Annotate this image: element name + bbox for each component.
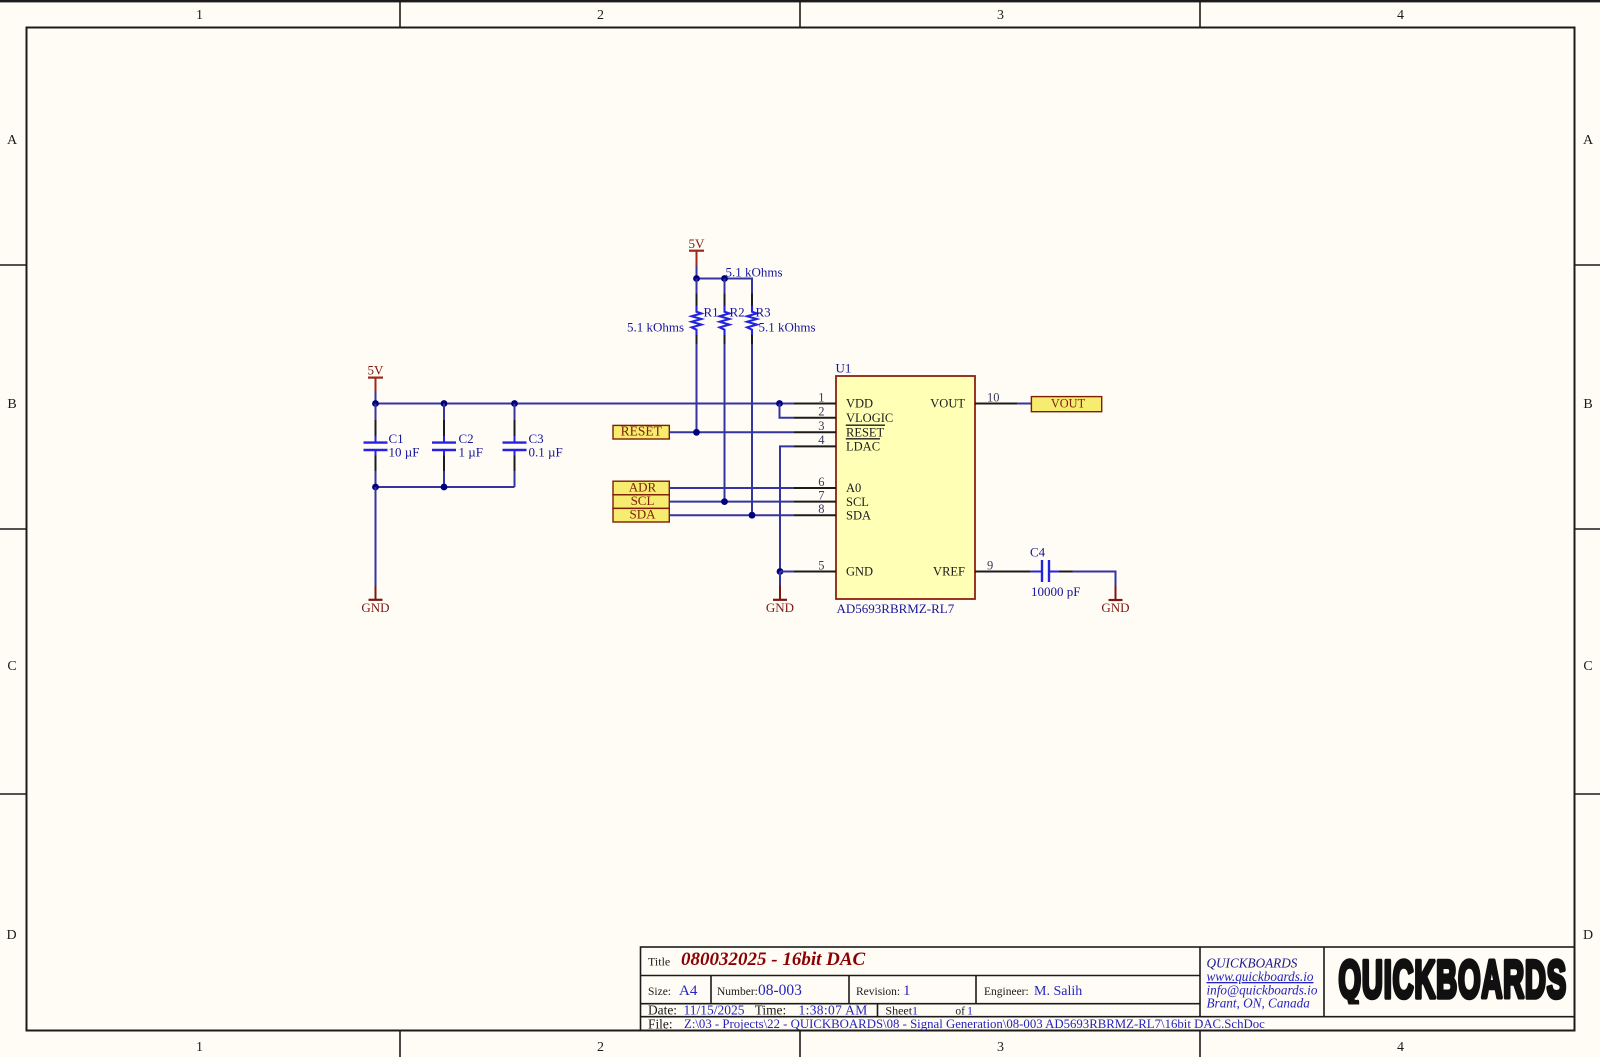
TITLEBLOCK [641,947,1575,1031]
svg-text:B: B [1583,397,1592,412]
wire ADR to pin 6 [669,487,794,489]
svg-text:Z:\03 - Projects\22 - QUICKBOA: Z:\03 - Projects\22 - QUICKBOARDS\08 - S… [684,1017,1265,1031]
svg-text:080032025 - 16bit DAC: 080032025 - 16bit DAC [681,949,866,970]
wire VLOGIC branch to pin 2 [780,404,795,418]
svg-text:10 µF: 10 µF [389,444,420,459]
wire 5V to resistor rail [696,266,698,279]
junction R1 top [693,275,700,282]
pin 10 VOUT [975,403,1017,405]
svg-text:0.1 µF: 0.1 µF [529,444,563,459]
svg-text:Sheet: Sheet [885,1004,912,1018]
wire resistor top rail [696,279,753,295]
pin 7 SCL [794,501,836,503]
capacitor C3 [503,404,527,488]
junction VLOGIC branch [776,400,783,407]
junction C1 bottom [372,484,379,491]
svg-text:RESET: RESET [846,426,885,440]
pin 8 SDA [794,514,836,516]
svg-text:File:: File: [648,1016,673,1031]
junction R2 top [721,275,728,282]
resistor R2 [720,279,730,502]
op-amp U1 AD5693RBRMZ-RL7 [794,361,1031,617]
svg-text:VLOGIC: VLOGIC [846,411,893,425]
wire junction to ground [779,572,781,586]
svg-text:AD5693RBRMZ-RL7: AD5693RBRMZ-RL7 [837,601,955,616]
svg-text:SDA: SDA [629,507,656,522]
wire capacitor bottom rail [375,486,515,488]
svg-text:2: 2 [597,8,604,23]
svg-text:A: A [7,133,18,148]
svg-text:Brant, ON, Canada: Brant, ON, Canada [1207,996,1311,1011]
svg-text:8: 8 [818,502,824,516]
svg-text:6: 6 [818,475,824,489]
svg-text:GND: GND [361,600,389,615]
svg-text:9: 9 [987,558,993,572]
resistor R3 [747,294,757,516]
svg-text:10000 pF: 10000 pF [1031,584,1080,599]
port RESET [613,423,669,439]
svg-text:4: 4 [1397,8,1404,23]
svg-text:SCL: SCL [846,495,869,509]
CIRCUIT [361,236,1129,616]
svg-text:R1: R1 [704,305,719,320]
port ADR [613,479,669,495]
svg-text:1: 1 [967,1004,973,1018]
svg-text:08-003: 08-003 [758,982,802,999]
svg-text:3: 3 [818,419,824,433]
svg-text:R3: R3 [756,305,771,320]
capacitor C4 [1031,560,1073,582]
svg-text:SDA: SDA [846,508,871,522]
svg-text:Engineer:: Engineer: [984,986,1029,998]
pin 3 RESET (active low) [794,431,836,433]
svg-text:M. Salih: M. Salih [1034,984,1082,999]
svg-text:7: 7 [818,488,824,502]
wire 5V symbol to VDD rail [375,391,377,404]
wire SDA to pin 8 [669,514,794,516]
junction R1 bottom / RESET [693,429,700,436]
svg-text:2: 2 [597,1040,604,1055]
port VOUT [1031,397,1101,412]
svg-text:2: 2 [818,405,824,419]
svg-text:1: 1 [903,983,911,999]
ground GND symbol (left) [361,586,389,615]
wire VDD rail (5V to pin 1) [375,403,795,405]
pin 4 LDAC (active low) [794,445,836,447]
wire pin 10 to VOUT port [1017,403,1031,405]
svg-text:3: 3 [997,8,1004,23]
svg-text:C: C [7,659,16,674]
svg-text:1: 1 [196,8,203,23]
junction C2 bottom [441,484,448,491]
svg-text:GND: GND [766,600,794,615]
wire RESET to pin 3 [669,431,794,433]
svg-text:VDD: VDD [846,397,873,411]
junction C1 top [372,400,379,407]
svg-text:10: 10 [987,390,1000,404]
wire SCL to pin 7 [669,501,794,503]
ground GND symbol (right, below C4) [1101,586,1129,615]
pin 5 GND [794,571,836,573]
svg-text:QUICKBOARDS: QUICKBOARDS [1339,950,1567,1008]
svg-text:Time:: Time: [755,1003,787,1018]
svg-text:5V: 5V [368,363,385,378]
svg-text:D: D [6,928,16,943]
pin 2 VLOGIC [794,417,836,419]
capacitor C1 [364,404,388,488]
junction GND pin 5 [777,568,784,575]
wire C4 to ground [1073,572,1116,586]
svg-text:LDAC: LDAC [846,439,880,453]
svg-text:Size:: Size: [648,986,671,998]
wire LDAC to GND net [780,446,794,571]
svg-text:1: 1 [912,1004,918,1018]
wire cap rail to ground [375,487,377,586]
pin 6 A0 [794,487,836,489]
svg-text:of: of [955,1006,965,1018]
svg-text:1: 1 [818,390,824,404]
junction R2 bottom / SCL [721,498,728,505]
svg-text:GND: GND [1101,600,1129,615]
pin 9 VREF [975,571,1031,573]
wire pin 5 to junction [780,571,794,573]
svg-text:U1: U1 [836,361,852,376]
svg-text:R2: R2 [730,305,745,320]
svg-text:A0: A0 [846,481,861,495]
svg-text:5.1 kOhms: 5.1 kOhms [726,265,783,280]
svg-text:B: B [7,397,16,412]
svg-text:5.1 kOhms: 5.1 kOhms [627,320,684,335]
svg-text:RESET: RESET [621,423,663,438]
svg-text:GND: GND [846,565,873,579]
ground GND symbol (middle, below U1) [766,586,794,615]
svg-text:1:38:07 AM: 1:38:07 AM [799,1003,868,1018]
svg-text:1 µF: 1 µF [459,444,483,459]
svg-text:4: 4 [1397,1040,1404,1055]
svg-text:C4: C4 [1030,545,1046,560]
svg-text:1: 1 [196,1040,203,1055]
svg-text:Revision:: Revision: [856,986,900,998]
junction C3 top [511,400,518,407]
svg-text:A: A [1583,133,1594,148]
port SCL [613,493,669,509]
pin 1 VDD [794,403,836,405]
svg-text:11/15/2025: 11/15/2025 [684,1003,745,1018]
svg-text:5.1 kOhms: 5.1 kOhms [759,320,816,335]
svg-text:VOUT: VOUT [930,397,965,411]
svg-text:VREF: VREF [933,565,965,579]
svg-text:Number:: Number: [717,986,758,998]
svg-text:VOUT: VOUT [1051,397,1086,411]
svg-text:C: C [1583,659,1592,674]
svg-text:4: 4 [818,433,825,447]
capacitor C2 [432,404,456,488]
svg-text:5V: 5V [689,236,706,251]
junction R3 bottom / SDA [749,512,756,519]
power 5V supply symbol (top, above resistors) [689,236,706,266]
svg-text:3: 3 [997,1040,1004,1055]
svg-text:Title: Title [648,955,670,969]
svg-text:5: 5 [818,558,824,572]
resistor R1 [692,279,702,433]
port SDA [613,507,669,523]
power 5V supply symbol (left, above C1) [368,363,385,392]
junction C2 top [441,400,448,407]
svg-text:A4: A4 [679,983,698,999]
svg-text:D: D [1583,928,1593,943]
